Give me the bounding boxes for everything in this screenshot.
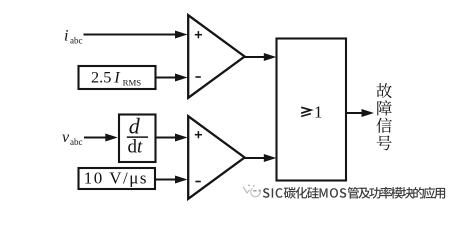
svg-text:2.5: 2.5 xyxy=(91,67,111,86)
svg-text:abc: abc xyxy=(70,137,83,147)
svg-text:1: 1 xyxy=(314,102,323,121)
svg-text:d: d xyxy=(129,114,141,139)
svg-text:v: v xyxy=(62,129,70,146)
svg-text:abc: abc xyxy=(70,36,83,46)
svg-text:i: i xyxy=(64,28,68,45)
svg-text:10 V/μs: 10 V/μs xyxy=(84,168,148,187)
svg-text:dt: dt xyxy=(128,137,144,158)
svg-text:RMS: RMS xyxy=(123,77,142,87)
